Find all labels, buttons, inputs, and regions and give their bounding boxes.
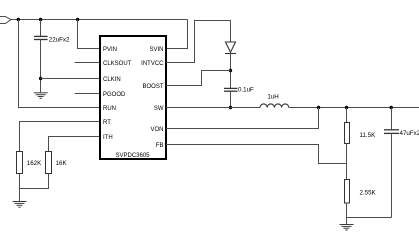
node cap-tap <box>39 18 42 21</box>
capacitor C1 22uFx2 <box>34 36 48 39</box>
svg-text:1uH: 1uH <box>267 93 278 100</box>
wire rail to C3 <box>391 108 393 130</box>
svg-text:47uFx2: 47uFx2 <box>400 130 419 137</box>
wire C3 to return <box>391 133 393 217</box>
svg-text:11.5K: 11.5K <box>360 132 377 139</box>
node boost junction <box>229 69 232 72</box>
wire resistor bottoms join <box>20 174 49 189</box>
node CLKIN junction <box>39 77 42 80</box>
input connector J1 <box>0 17 11 24</box>
op-amp U1 SVPDC3605 box <box>100 36 166 159</box>
svg-text:SVIN: SVIN <box>149 47 163 53</box>
wire VOUT rail <box>289 107 419 109</box>
node cout-tap <box>390 106 393 109</box>
wire R3 to R4 <box>346 144 348 180</box>
ground GND2 <box>13 202 27 208</box>
wire PGOOD stub <box>75 93 100 95</box>
svg-text:VON: VON <box>150 127 163 133</box>
wire VIN rail <box>11 19 188 21</box>
resistor R4 2.55K <box>345 180 350 204</box>
wire ITH <box>49 137 101 152</box>
resistor R1 162K <box>17 152 23 174</box>
svg-text:16K: 16K <box>56 160 68 167</box>
capacitor C3 47uFx2 <box>384 130 399 134</box>
svg-text:RT: RT <box>103 120 111 126</box>
wire R4 to GND3 <box>346 203 348 225</box>
svg-text:PVIN: PVIN <box>103 47 117 53</box>
wire CLKIN <box>41 78 101 80</box>
wire BOOST <box>166 71 231 86</box>
svg-text:ITH: ITH <box>103 135 113 141</box>
wire CLKSOUT stub <box>75 62 100 64</box>
svg-text:SVPDC3605: SVPDC3605 <box>115 153 150 159</box>
resistor R3 11.5K <box>345 123 350 144</box>
wire diode to cap <box>230 54 232 89</box>
svg-text:2.55K: 2.55K <box>360 190 377 197</box>
wire INTVCC to diode <box>166 21 231 63</box>
svg-text:0.1uF: 0.1uF <box>238 86 254 93</box>
ground GND3 <box>340 225 354 231</box>
wire FB <box>166 145 347 164</box>
node von-tap <box>317 106 320 109</box>
resistor R2 16K <box>46 152 52 174</box>
wire RT <box>20 122 101 152</box>
node pvin-tap <box>76 18 79 21</box>
wire cap to SW rail <box>230 91 232 107</box>
node SW-cap junction <box>229 106 232 109</box>
wire to GND2 <box>19 189 21 202</box>
svg-text:BOOST: BOOST <box>142 84 163 90</box>
wire cap to ground <box>40 40 42 93</box>
node divider-tap <box>345 106 348 109</box>
wire SW to inductor <box>166 107 260 109</box>
svg-text:CLKIN: CLKIN <box>103 77 121 83</box>
svg-text:22uFx2: 22uFx2 <box>49 36 70 43</box>
ground GND1 <box>34 93 48 99</box>
wire cap return <box>347 217 392 219</box>
diode D1 <box>225 42 236 54</box>
wire PVIN <box>78 20 101 49</box>
wire rail to R3 <box>346 108 348 123</box>
svg-text:INTVCC: INTVCC <box>141 61 164 67</box>
wire SVIN <box>166 20 188 49</box>
capacitor C2 0.1uF <box>224 88 238 91</box>
svg-text:162K: 162K <box>27 160 42 167</box>
inductor L1 1uH <box>260 104 289 108</box>
node run-tap <box>17 18 20 21</box>
svg-text:PGOOD: PGOOD <box>103 92 126 98</box>
wire RUN riser <box>19 20 101 108</box>
wire VON <box>166 108 319 129</box>
svg-text:SW: SW <box>154 106 164 112</box>
svg-text:FB: FB <box>156 143 164 149</box>
wire cap drop <box>40 20 42 37</box>
svg-text:CLKSOUT: CLKSOUT <box>103 61 132 67</box>
svg-text:RUN: RUN <box>103 106 116 112</box>
